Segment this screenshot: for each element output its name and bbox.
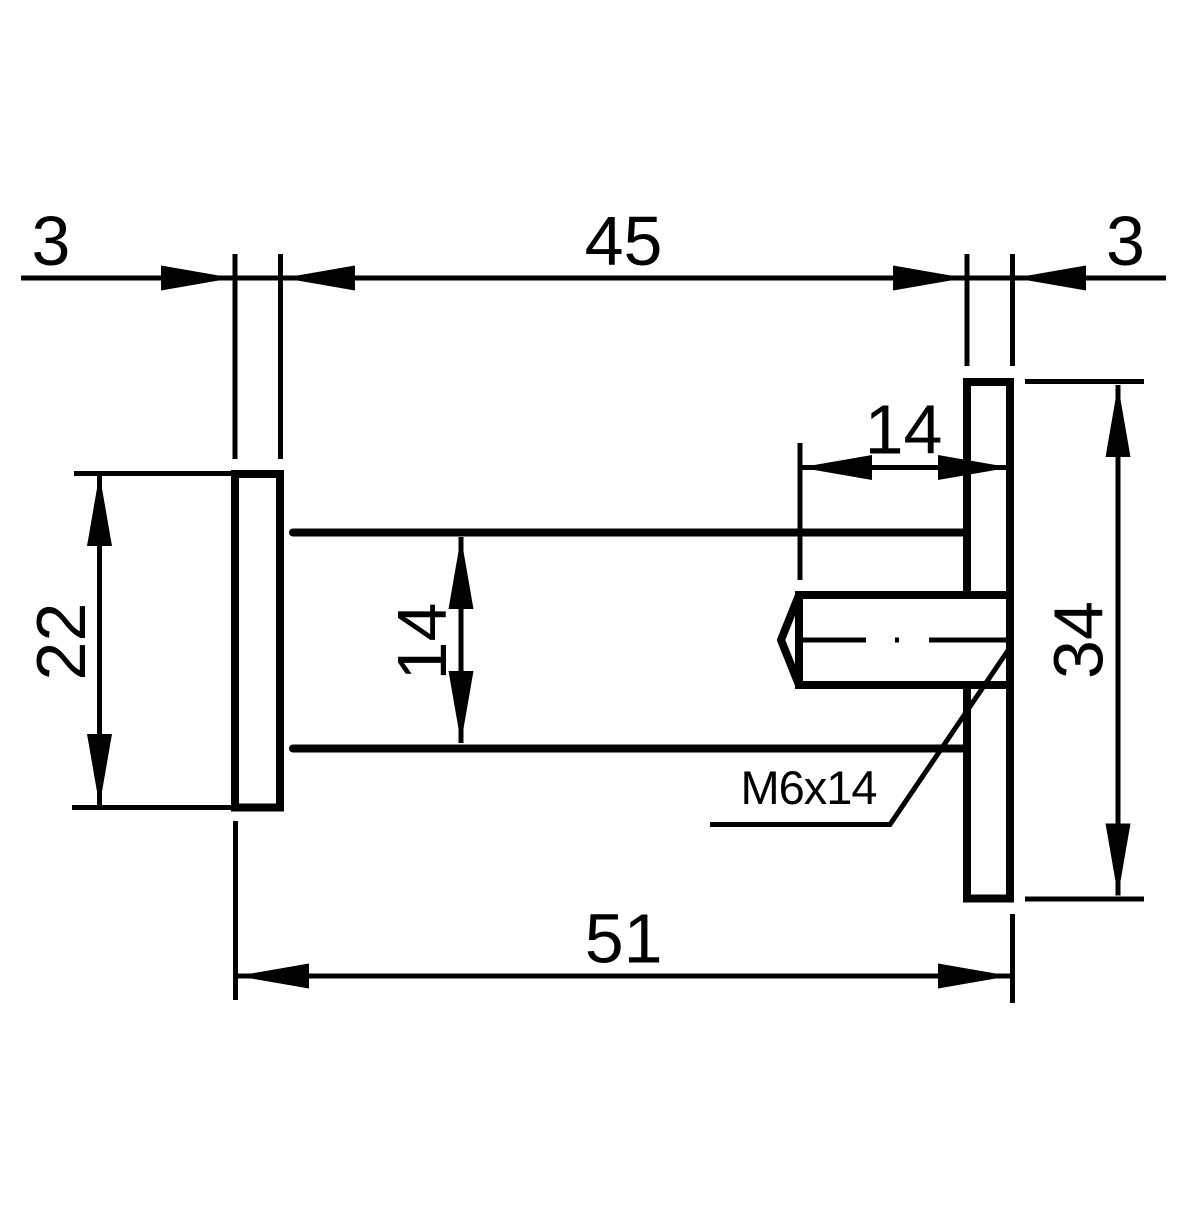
arrow 14mid up [449, 537, 474, 609]
arrow 22 down [87, 734, 112, 806]
extension line 22 top [74, 471, 232, 476]
svg-text:14: 14 [865, 391, 943, 469]
arrow 45-left left-pointing [283, 266, 355, 291]
svg-text:3: 3 [1106, 202, 1145, 280]
screw centerline dot [895, 638, 899, 643]
dim 34: dimension line x=1118 [1116, 385, 1121, 896]
arrow 14mid down [449, 671, 474, 743]
arrow 34 up [1106, 385, 1131, 457]
arrow 14top left-pointing [800, 455, 872, 480]
barrel bottom line [293, 745, 967, 753]
extension line right plate left [965, 254, 970, 366]
top dimension line y=278 [21, 276, 1166, 281]
arrow 51 left-pointing [237, 964, 309, 989]
arrow 34 down [1106, 824, 1131, 896]
extension line 51 right x=1012.5 [1010, 914, 1015, 1003]
extension line 22 bottom [72, 805, 232, 810]
right plate right edge [1006, 378, 1014, 903]
left plate outline [235, 474, 280, 808]
dim 14 middle: dimension line x=461 [459, 537, 464, 743]
leader line M6x14 [710, 646, 1011, 825]
tick screw-left extension x=800 [798, 443, 803, 580]
right plate left edge upper segment [963, 378, 971, 591]
barrel top line [293, 529, 967, 537]
screw body bottom [799, 681, 1010, 689]
svg-text:51: 51 [585, 900, 663, 978]
screw centerline dash 2 [929, 638, 1007, 643]
svg-text:14: 14 [383, 603, 461, 681]
arrow 14top right-pointing [938, 455, 1010, 480]
arrow right-3 left-pointing [1014, 266, 1086, 291]
right plate bottom edge [963, 895, 1014, 903]
arrow 22 up [87, 474, 112, 546]
extension line right plate right [1010, 254, 1015, 366]
arrow 51 right-pointing [938, 964, 1010, 989]
svg-text:22: 22 [22, 603, 100, 681]
arrow left-3 right-pointing [161, 266, 233, 291]
extension line 34 top [1025, 379, 1144, 384]
screw cone tip [781, 595, 799, 685]
svg-text:3: 3 [32, 202, 71, 280]
dim 14 top: dimension line y=467.5 [800, 465, 1010, 470]
right plate left edge lower segment [963, 689, 971, 903]
extension line left plate right [278, 254, 283, 459]
dim 51: dimension line y=976 [237, 974, 1010, 979]
right plate top edge [963, 378, 1014, 386]
screw centerline dash 1 [801, 638, 866, 643]
extension line left plate left [233, 254, 238, 459]
svg-text:34: 34 [1040, 601, 1118, 679]
dim 22: dimension line x=99.5 [97, 474, 102, 806]
screw left face [795, 591, 803, 689]
extension line 34 bottom [1025, 897, 1144, 902]
svg-text:M6x14: M6x14 [740, 761, 876, 814]
screw M6x14 body top [799, 591, 1010, 599]
arrow 45-right right-pointing [893, 266, 965, 291]
extension line 51 left x=235.5 [233, 821, 238, 1000]
svg-text:45: 45 [585, 202, 663, 280]
